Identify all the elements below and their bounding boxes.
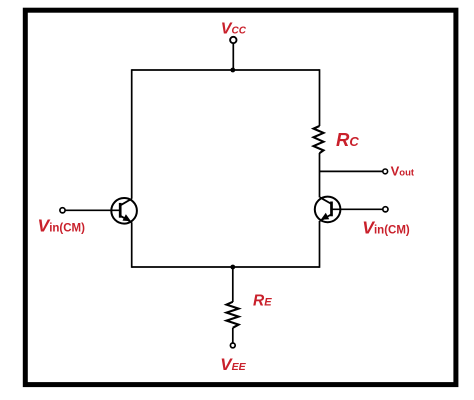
node VCC junction xyxy=(230,68,235,73)
wire Vout tap xyxy=(320,170,383,172)
wire right collector branch upper xyxy=(319,69,321,126)
terminal Vin right xyxy=(383,207,388,212)
wire RE bottom lead xyxy=(232,328,234,343)
wire RE top lead xyxy=(232,267,234,302)
terminal Vout xyxy=(383,169,388,174)
wire Q1 base lead xyxy=(65,209,119,211)
transistor Q1 xyxy=(111,198,137,224)
terminal VCC xyxy=(230,37,236,43)
node tail junction xyxy=(230,265,235,270)
wire right collector branch lower xyxy=(319,153,321,197)
wire bottom rail xyxy=(132,266,320,268)
terminal Vin left xyxy=(60,208,65,213)
wire left collector branch xyxy=(131,69,133,199)
wire top rail xyxy=(132,69,320,71)
wire VCC lead xyxy=(232,43,234,70)
wire Q2 base lead xyxy=(333,208,384,210)
terminal VEE xyxy=(230,343,235,348)
resistor RC xyxy=(314,126,324,153)
wire left emitter branch xyxy=(131,222,133,267)
wire right emitter branch xyxy=(319,221,321,268)
transistor Q2 xyxy=(315,197,341,223)
resistor RE xyxy=(227,302,239,328)
